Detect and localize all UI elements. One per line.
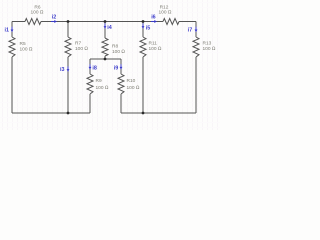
junction bottom of R11 (142, 112, 145, 115)
junction top of R7 (67, 20, 70, 23)
background canvas (0, 0, 220, 130)
junction top of R8 (104, 20, 107, 23)
svg-text:i2: i2 (52, 15, 57, 21)
resistor R8 (102, 38, 125, 56)
current label i5 (142, 23, 151, 31)
wire T split horizontal (90, 58, 121, 60)
junction top of R11 (142, 20, 145, 23)
resistor R11 (140, 37, 162, 57)
resistor R6 (25, 4, 44, 24)
current label i1 (5, 27, 14, 34)
wire R7 branch bottom (67, 57, 69, 113)
svg-text:R12: R12 (160, 4, 169, 10)
resistor R10 (118, 74, 140, 94)
svg-text:R11: R11 (149, 41, 158, 47)
wire R10 branch bottom (120, 94, 122, 113)
wire right branch top stub (195, 22, 197, 38)
wire bottom-left rail (12, 112, 90, 114)
wire top-left lead (12, 21, 25, 23)
svg-text:100 Ω: 100 Ω (158, 10, 171, 16)
wire R9 branch top stub (89, 59, 91, 74)
svg-text:100 Ω: 100 Ω (112, 49, 125, 55)
svg-text:R9: R9 (96, 78, 102, 84)
svg-text:R7: R7 (75, 41, 81, 47)
svg-text:R10: R10 (127, 78, 136, 84)
junction bottom of R7 (67, 112, 70, 115)
wire R10 branch top stub (120, 59, 122, 74)
svg-text:100 Ω: 100 Ω (20, 47, 33, 53)
svg-text:i8: i8 (92, 66, 97, 72)
svg-text:i5: i5 (146, 25, 151, 31)
wire R9 branch bottom (89, 94, 91, 113)
resistor R9 (87, 74, 109, 94)
svg-text:100 Ω: 100 Ω (127, 85, 140, 91)
svg-text:100 Ω: 100 Ω (96, 85, 109, 91)
wire R7 branch top stub (67, 22, 69, 38)
current label i4 (104, 23, 112, 31)
svg-text:R5: R5 (20, 41, 26, 47)
svg-text:100 Ω: 100 Ω (149, 46, 162, 52)
svg-text:i9: i9 (114, 66, 119, 72)
svg-text:i1: i1 (5, 27, 10, 33)
current label i8 (89, 64, 97, 71)
wire R11 branch bottom (142, 57, 144, 113)
wire R8 branch top stub (104, 22, 106, 39)
current label i7 (188, 27, 198, 34)
current label i9 (114, 64, 123, 71)
current label i2 (51, 15, 57, 23)
wire top-middle (41, 21, 163, 23)
current label i6 (151, 15, 157, 23)
resistor R13 (193, 37, 216, 57)
wire right branch bottom (195, 57, 197, 113)
svg-text:R13: R13 (203, 41, 212, 47)
wire top-right lead (179, 21, 196, 23)
wire R11 branch top stub (142, 22, 144, 38)
wire left branch bottom (11, 57, 13, 113)
svg-text:R6: R6 (34, 4, 40, 10)
junction node T split (104, 58, 107, 61)
svg-text:i6: i6 (151, 15, 156, 21)
svg-text:i7: i7 (188, 27, 193, 33)
wire bottom-right rail (121, 112, 196, 114)
svg-text:100 Ω: 100 Ω (30, 10, 43, 16)
svg-text:100 Ω: 100 Ω (203, 46, 216, 52)
svg-text:100 Ω: 100 Ω (75, 46, 88, 52)
resistor R12 (158, 4, 179, 24)
svg-text:i4: i4 (107, 25, 112, 31)
resistor R7 (65, 37, 88, 57)
faint grid (0, 0, 220, 130)
wire R8 bottom stub to T node (104, 56, 106, 59)
svg-text:R8: R8 (112, 43, 118, 49)
current label i3 (60, 66, 69, 73)
svg-text:i3: i3 (60, 67, 65, 73)
resistor R5 (9, 37, 33, 57)
wire left branch top stub (11, 22, 13, 38)
